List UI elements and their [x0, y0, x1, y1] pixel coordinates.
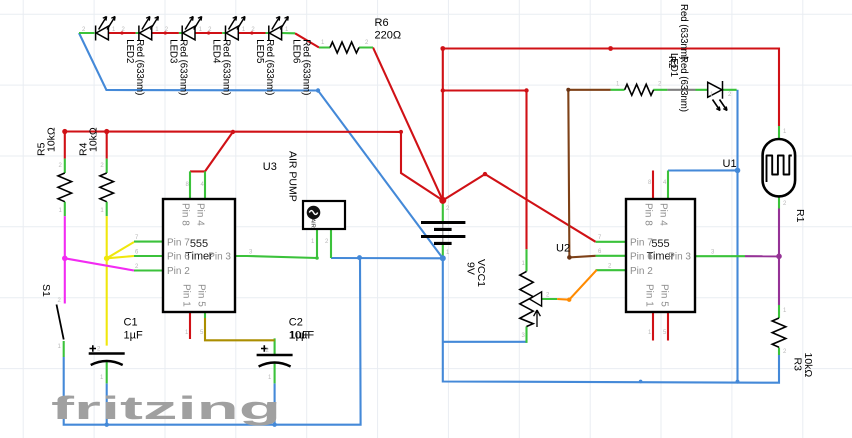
svg-text:10kΩ: 10kΩ	[46, 127, 58, 152]
svg-text:Red (633nm): Red (633nm)	[264, 39, 275, 95]
svg-text:Pin 4: Pin 4	[658, 203, 669, 226]
svg-text:LED3: LED3	[167, 39, 178, 63]
svg-text:Red (633nm): Red (633nm)	[678, 4, 689, 60]
svg-text:Pin 5: Pin 5	[196, 284, 207, 307]
svg-text:Pin 7: Pin 7	[630, 237, 653, 248]
svg-text:Pin 6: Pin 6	[167, 252, 190, 263]
svg-text:9V: 9V	[465, 262, 477, 275]
svg-text:555: 555	[190, 238, 208, 250]
svg-text:C2: C2	[289, 317, 303, 329]
svg-text:Pin 5: Pin 5	[659, 284, 670, 307]
svg-text:Red (633nm): Red (633nm)	[300, 39, 311, 95]
svg-text:U1: U1	[723, 158, 737, 170]
svg-text:Red (633nm): Red (633nm)	[177, 39, 188, 95]
svg-text:LED5: LED5	[254, 39, 265, 63]
svg-text:LED6: LED6	[290, 39, 301, 63]
svg-text:220Ω: 220Ω	[375, 30, 402, 42]
svg-text:U2: U2	[556, 243, 570, 255]
svg-text:fritzing: fritzing	[51, 390, 281, 426]
svg-text:Pin 1: Pin 1	[644, 284, 655, 307]
svg-text:AIR: AIR	[310, 219, 316, 228]
svg-text:1µF: 1µF	[290, 330, 309, 342]
svg-text:Pin 8: Pin 8	[643, 203, 654, 226]
svg-text:R6: R6	[375, 17, 389, 29]
svg-text:U3: U3	[263, 161, 277, 173]
svg-text:Pin 8: Pin 8	[180, 203, 191, 226]
svg-text:S1: S1	[40, 284, 52, 297]
svg-text:LED4: LED4	[211, 39, 222, 64]
svg-text:LED1: LED1	[668, 53, 679, 77]
svg-text:Pin 7: Pin 7	[167, 237, 190, 248]
svg-text:Pin 1: Pin 1	[181, 284, 192, 307]
svg-text:R1: R1	[794, 209, 806, 223]
svg-text:10kΩ: 10kΩ	[802, 353, 814, 378]
svg-text:1µF: 1µF	[124, 330, 143, 342]
svg-text:555: 555	[651, 238, 669, 250]
svg-text:Pin 2: Pin 2	[630, 266, 653, 277]
svg-text:Pin 6: Pin 6	[630, 252, 653, 263]
svg-text:AIR PUMP: AIR PUMP	[287, 151, 299, 202]
svg-text:Pin 4: Pin 4	[195, 203, 206, 226]
svg-text:R3: R3	[792, 358, 804, 372]
svg-text:Red (633nm): Red (633nm)	[221, 39, 232, 95]
svg-text:10kΩ: 10kΩ	[88, 127, 100, 152]
svg-text:Pin 3: Pin 3	[208, 252, 231, 263]
svg-text:C1: C1	[124, 317, 138, 329]
svg-text:LED2: LED2	[124, 39, 135, 63]
svg-text:Pin 2: Pin 2	[167, 266, 190, 277]
svg-text:Red (633nm): Red (633nm)	[678, 56, 689, 112]
svg-text:Pin 3: Pin 3	[668, 252, 691, 263]
svg-text:Red (633nm): Red (633nm)	[134, 39, 145, 95]
